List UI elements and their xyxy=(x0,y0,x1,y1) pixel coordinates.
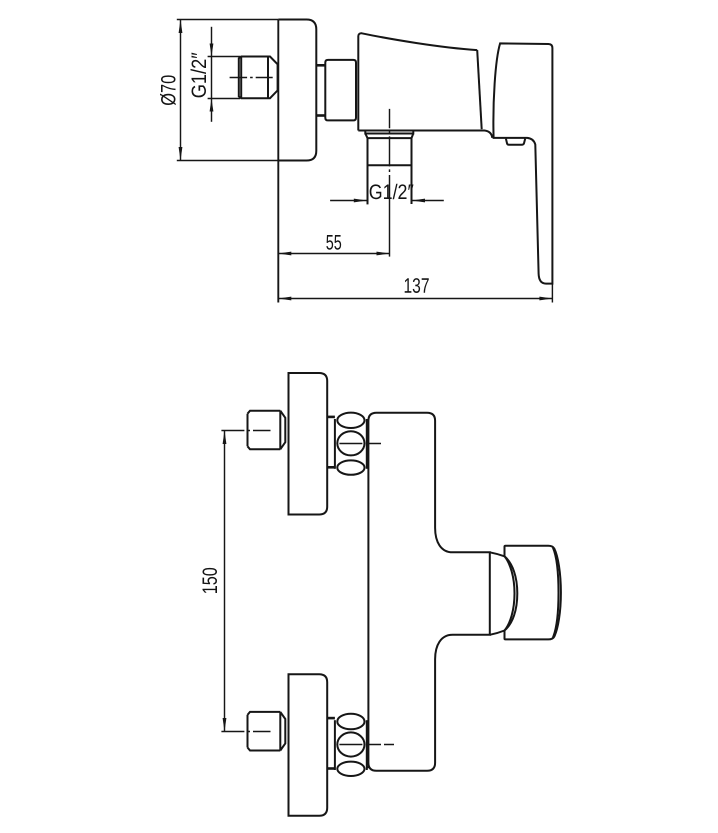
stub plate-rings upper xyxy=(327,416,335,419)
150 dimension line xyxy=(224,431,226,732)
svg-text:G1/2″: G1/2″ xyxy=(369,181,414,204)
wall plate (side view) xyxy=(278,20,316,161)
inlet centerline lower right (dash-dot) xyxy=(339,744,394,746)
150 arrow up xyxy=(223,431,227,445)
center/dimension lines bottom view xyxy=(221,431,394,745)
mixer body (side view) xyxy=(358,33,477,130)
stub plate-rings lower xyxy=(327,466,335,469)
handle knob inner right arc xyxy=(553,548,559,638)
cartridge neck shoulder top xyxy=(490,552,505,556)
137 dimension line xyxy=(278,298,552,300)
phi70 arrow down xyxy=(179,147,183,161)
stub rings-body upper xyxy=(367,420,369,423)
outlet centerline dash-dot xyxy=(389,109,391,205)
connection stub lower (plate to nut) xyxy=(316,114,325,117)
set-screw notch under handle xyxy=(506,139,525,145)
ring ellipse middle xyxy=(337,431,364,455)
hex fitting (plan) xyxy=(248,411,286,450)
dimension + center lines, top view xyxy=(177,20,553,303)
extension of plate top edge to phi70 dim xyxy=(177,19,278,21)
55 arrow right xyxy=(377,252,390,256)
handle cup rim inner arc xyxy=(505,556,515,630)
stub rings-body lower xyxy=(367,465,369,468)
svg-text:150: 150 xyxy=(199,567,222,594)
phi70 dimension line xyxy=(180,20,182,161)
G1/2 bottom arrow left xyxy=(412,199,425,203)
body bottom edge into handle shelf xyxy=(358,131,492,138)
G1/2 bottom dim line right part xyxy=(412,200,444,202)
wall plate (plan) xyxy=(289,373,328,515)
cartridge neck shoulder bottom xyxy=(490,631,505,635)
handle lever (side view) xyxy=(493,43,552,283)
svg-text:Ø70: Ø70 xyxy=(158,75,181,106)
ring ellipse lower xyxy=(337,460,364,474)
55 dimension line xyxy=(278,253,389,255)
hex centerline lower (dash-dot) xyxy=(221,731,270,733)
plate left edge + extension line down to 137 dim xyxy=(277,20,279,303)
G1/2 top dimension line xyxy=(211,27,213,57)
bottom inlet assembly (translated copy) xyxy=(248,674,369,816)
coupling nut (side view) xyxy=(325,60,356,121)
outlet flange xyxy=(365,131,413,138)
G1/2 bottom arrow right xyxy=(354,199,367,203)
55 arrow left xyxy=(278,252,291,256)
labels top view xyxy=(158,52,430,298)
hex fitting G1/2 male (left) xyxy=(239,57,278,99)
inlet centerline upper right (dash-dot) xyxy=(339,443,381,445)
handle cup rim outer arc xyxy=(505,556,518,630)
coupling rings outer edges xyxy=(334,419,336,469)
G1/2 top arrow up xyxy=(210,99,214,112)
svg-text:137: 137 xyxy=(403,275,429,298)
hex centerline upper (dash-dot) xyxy=(221,430,270,432)
137 arrow left xyxy=(278,297,291,301)
mixer body (plan) xyxy=(368,413,489,771)
G1/2 top arrow down xyxy=(210,44,214,57)
outlet centerline solid extension to 55 dim xyxy=(389,205,391,257)
connection stub upper (plate to nut) xyxy=(316,64,325,67)
handle right edge extension down to 137 dim xyxy=(551,284,553,303)
outlet pipe G1/2 xyxy=(367,138,369,204)
svg-text:55: 55 xyxy=(326,231,342,254)
fitting centerline (dash-dot) xyxy=(230,77,273,79)
phi70 arrow up xyxy=(179,20,183,34)
G1/2 bottom dim line left part xyxy=(330,200,367,202)
handle knob outline (plan) xyxy=(505,546,561,640)
extension of plate bottom edge to phi70 dim xyxy=(177,160,278,162)
ring ellipse upper xyxy=(337,413,364,428)
arrowheads bottom view xyxy=(223,431,227,732)
top inlet assembly xyxy=(248,373,369,515)
arrowheads top view xyxy=(179,20,553,301)
svg-text:G1/2″: G1/2″ xyxy=(188,52,211,98)
G1/2 top dim extension lines xyxy=(208,56,240,58)
label 150 xyxy=(199,567,222,594)
137 arrow right xyxy=(539,297,552,301)
150 arrow down xyxy=(223,718,227,732)
cartridge cap right edge xyxy=(477,50,482,129)
